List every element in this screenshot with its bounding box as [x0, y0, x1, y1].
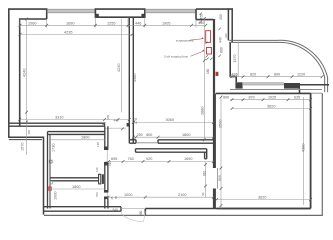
wall pier left (top of bottom-right room)	[230, 77, 236, 83]
svg-text:870: 870	[249, 95, 255, 99]
svg-text:760: 760	[128, 157, 134, 161]
svg-text:540: 540	[113, 208, 119, 212]
entrance door leaf + swing	[121, 211, 146, 221]
svg-text:2100: 2100	[178, 193, 186, 197]
svg-text:1800: 1800	[182, 133, 190, 137]
red block R3	[216, 72, 219, 76]
svg-text:95: 95	[201, 192, 205, 196]
bottom-right room inner bottom face	[217, 208, 311, 210]
svg-text:1220: 1220	[297, 73, 305, 77]
wall: top pier between windows	[95, 9, 144, 17]
svg-text:450: 450	[219, 14, 223, 20]
exterior step wall W_c bottom-left	[9, 122, 44, 215]
svg-text:4240: 4240	[23, 69, 27, 77]
svg-text:340: 340	[224, 33, 228, 38]
svg-text:440: 440	[219, 37, 223, 43]
building outer line right side (below balcony)	[44, 93, 322, 215]
svg-text:1905: 1905	[162, 21, 170, 25]
svg-text:1690: 1690	[184, 157, 192, 161]
svg-text:2880: 2880	[200, 107, 204, 115]
svg-text:145: 145	[96, 142, 100, 147]
window W2 top (middle room)	[145, 9, 196, 12]
red leader 1 + text	[190, 39, 205, 57]
svg-text:4240: 4240	[117, 64, 121, 72]
wall V4 stub below door	[213, 189, 216, 209]
gray switch symbol	[49, 160, 52, 163]
svg-text:436: 436	[232, 73, 238, 77]
wall pier right (top of bottom-right room)	[284, 83, 300, 89]
wall V4: middle room right wall (shaft side)	[213, 19, 215, 93]
svg-text:4460: 4460	[133, 74, 137, 82]
svg-text:170: 170	[134, 118, 138, 124]
balcony-facing single wall line	[229, 42, 231, 77]
ticks row1	[19, 24, 208, 27]
svg-text:1570: 1570	[233, 55, 237, 63]
bottom-right room inner dims	[303, 97, 305, 205]
svg-text:3310: 3310	[55, 116, 63, 120]
svg-text:3620: 3620	[258, 195, 266, 199]
bathroom top wall	[48, 132, 105, 135]
wall V5: outer wall right of shaft	[227, 8, 229, 40]
shaft block at divider end	[99, 174, 101, 184]
interior vertical dim (middle room)	[203, 19, 205, 140]
svg-text:1025: 1025	[268, 95, 276, 99]
svg-text:890: 890	[274, 73, 280, 77]
svg-text:110: 110	[95, 167, 99, 172]
interior vertical dim (left room, near V3)	[121, 19, 123, 112]
svg-text:4235: 4235	[64, 31, 72, 35]
door threshold line in V4 gap	[216, 168, 218, 189]
svg-text:446: 446	[135, 21, 141, 25]
svg-text:1800: 1800	[72, 185, 80, 189]
svg-text:1000: 1000	[53, 192, 57, 200]
svg-text:2-ой кондиц.блок: 2-ой кондиц.блок	[164, 55, 189, 59]
svg-text:1690: 1690	[66, 21, 74, 25]
dimension row 1 (top, y=25.3)	[20, 17, 204, 27]
svg-text:2500: 2500	[219, 120, 223, 128]
bottom-right room inner right face	[310, 93, 312, 208]
wall: top wall right segment of middle room	[196, 9, 233, 20]
wall W_b: left room bottom wall	[10, 123, 105, 126]
bathroom left wall	[48, 132, 51, 209]
svg-text:920: 920	[146, 157, 152, 161]
window W3 (bottom-right room to balcony)	[243, 83, 284, 85]
dim row under left room (3310/445/370)	[20, 119, 130, 121]
svg-text:1730: 1730	[51, 144, 55, 152]
toilet dims	[50, 188, 105, 190]
left exterior vertical dim	[26, 19, 28, 155]
svg-text:695: 695	[111, 157, 117, 161]
balcony dim row y=76.7	[230, 76, 322, 78]
dimension row 2 (top, y=34.5)	[20, 34, 132, 36]
bottom-right room left dim rotated	[220, 97, 222, 209]
svg-text:890: 890	[223, 95, 229, 99]
svg-text:3060: 3060	[166, 118, 174, 122]
balcony floor line (double)	[229, 40, 327, 92]
window W1 top (left room)	[47, 9, 96, 12]
svg-text:180: 180	[206, 68, 210, 74]
pier corner blocks	[95, 14, 98, 17]
corridor interior dim 810	[205, 162, 207, 197]
bottom wall right segment	[145, 209, 310, 216]
balcony inner vertical dim	[237, 42, 239, 77]
svg-text:1570: 1570	[21, 143, 25, 151]
svg-text:800: 800	[146, 133, 152, 137]
svg-text:635: 635	[294, 95, 300, 99]
svg-text:250: 250	[137, 133, 143, 137]
wall V3: between left and middle room	[129, 17, 133, 143]
svg-text:1800: 1800	[81, 136, 89, 140]
red radiator R2	[207, 48, 212, 55]
corridor top dim row (250/800/1800) y=137	[133, 136, 213, 138]
corridor dim row y=197.2	[108, 196, 213, 198]
corridor dim row y=161.5	[105, 161, 214, 163]
middle room width dim 3060	[133, 122, 213, 124]
bathroom top dim 1800	[50, 139, 105, 141]
svg-text:1000: 1000	[124, 193, 132, 197]
corridor band2 (y~148.5-152.5)	[136, 149, 207, 159]
bottom-right room dims	[230, 99, 311, 101]
corridor left wall verticals	[105, 126, 108, 208]
svg-text:810: 810	[202, 170, 206, 176]
svg-text:3620: 3620	[267, 104, 275, 108]
svg-text:820: 820	[250, 73, 256, 77]
door threshold band1	[136, 142, 158, 144]
svg-text:880: 880	[139, 210, 143, 216]
svg-text:1060: 1060	[28, 21, 36, 25]
bottom wall left segment	[44, 207, 122, 212]
svg-text:4380: 4380	[302, 144, 306, 152]
corridor band1: wall with door (y~139.5-143.5)	[129, 140, 215, 143]
red marker R4 (bath)	[50, 181, 53, 184]
window sill band below	[230, 90, 322, 94]
svg-text:760: 760	[95, 192, 99, 197]
bottom-right room inner top face	[216, 92, 311, 94]
svg-text:445: 445	[114, 119, 119, 123]
wall: top-left exterior corner block	[9, 9, 47, 126]
svg-text:кондиционер: кондиционер	[176, 38, 194, 42]
svg-text:445: 445	[106, 114, 110, 119]
svg-text:880: 880	[220, 47, 224, 53]
svg-text:446: 446	[198, 21, 204, 25]
svg-text:300: 300	[27, 129, 31, 134]
bath/toilet divider wall	[50, 178, 99, 181]
red radiator R1	[206, 31, 211, 43]
svg-text:1255: 1255	[107, 21, 115, 25]
